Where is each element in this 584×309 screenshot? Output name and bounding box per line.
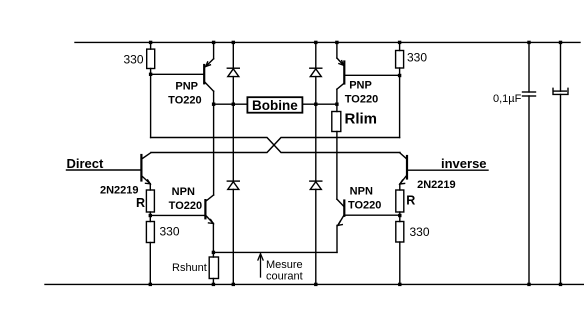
resistor Rlim [332, 112, 341, 132]
junction dot coil line at D1 [232, 103, 235, 106]
capacitor C1 0,1uF wire from top rail [528, 42, 530, 92]
junction dot bottom rail at R4 [149, 283, 152, 286]
diode D4 (lower right) column: coil line to bottom rail [315, 104, 317, 181]
wire: node C to Q5 base [150, 214, 204, 216]
junction dot bottom rail at Rshunt [212, 283, 215, 286]
shunt node junction dot [212, 251, 215, 254]
wire: R4 to bottom rail [149, 243, 151, 285]
wire: Q2 base to node B [345, 74, 399, 76]
wire: R6 to bottom rail [399, 242, 401, 284]
inductor Bobine box [247, 97, 302, 113]
Q3 collector slant [142, 153, 150, 159]
svg-text:R: R [136, 196, 145, 210]
wire: R1 to node A (left PNP base) [150, 69, 152, 75]
svg-text:PNP: PNP [349, 79, 372, 91]
wire: emitter bus to right NPN emitter [213, 251, 337, 253]
Q2 collector slant [337, 83, 344, 89]
junction dot top rail at D1 [232, 41, 235, 44]
node R junction dot (right coil node) [335, 103, 338, 106]
svg-text:Mesure: Mesure [266, 259, 303, 271]
Q4 emitter slant with arrow [400, 176, 406, 184]
wire: top supply rail [75, 41, 580, 43]
junction dot top rail at R1 [149, 41, 152, 44]
Q4 collector slant [400, 153, 406, 159]
junction dot top rail at Q1 emitter [212, 41, 215, 44]
wire: coil node L to Bobine box [214, 103, 247, 105]
wire: Q3 emitter to R3 [149, 184, 151, 190]
transistor Q5 NPN TO220 (bottom left) base bar [204, 200, 206, 218]
wire: bottom supply rail [45, 283, 584, 285]
junction dot top rail at Q2 emitter [335, 41, 338, 44]
Q3 emitter slant with arrow (NPN out) [142, 177, 150, 184]
junction dot top rail at C1 [527, 41, 530, 44]
wire: Direct input to Q3 base [67, 169, 141, 171]
Q1 collector slant [205, 82, 214, 91]
Q6 collector slant [337, 199, 344, 206]
diode D2 triangle [310, 69, 321, 77]
node B junction dot (right PNP base) [398, 74, 401, 77]
wire: Rlim down to Q6 collector [336, 132, 338, 200]
svg-text:TO220: TO220 [168, 95, 201, 107]
wire: shunt node to Rshunt [212, 252, 214, 257]
svg-text:Rlim: Rlim [345, 110, 378, 127]
svg-text:330: 330 [124, 53, 144, 67]
junction dot top rail at D2 [314, 41, 317, 44]
diode D3 cathode bar [227, 180, 239, 182]
wire: Q2 collector down to right coil node [336, 89, 338, 104]
wire: crossover upper-right horizontal [151, 138, 400, 153]
arrow: Mesure courant [260, 254, 262, 277]
wire: R5 to node D [399, 212, 401, 222]
Q2 emitter wire to top rail [336, 42, 338, 58]
svg-text:TO220: TO220 [345, 94, 378, 106]
junction dot bottom rail at D4 [314, 283, 317, 286]
svg-text:NPN: NPN [350, 186, 373, 198]
wire: node A to Q1 base [151, 73, 204, 75]
resistor R4 330 (bottom left) [146, 222, 154, 243]
svg-text:TO220: TO220 [348, 199, 381, 211]
diode D2 (upper right) cathode bar [310, 67, 322, 69]
svg-text:330: 330 [407, 50, 427, 64]
node D junction dot [398, 214, 401, 217]
svg-text:0,1µF: 0,1µF [493, 93, 522, 105]
wire: Q5 emitter down to shunt node [212, 223, 214, 252]
Q2 emitter slant with arrow into base (PNP) [337, 58, 344, 65]
Q5 emitter slant with arrow [206, 216, 213, 223]
wire: R2 to node B [399, 68, 401, 76]
svg-text:NPN: NPN [172, 186, 195, 198]
diode D4 cathode bar [310, 180, 322, 182]
wire: C1 to bottom rail [528, 96, 530, 284]
wire: node A down to crossover upper-left [150, 74, 152, 137]
wire: top rail to R2 [399, 42, 401, 50]
svg-text:PNP: PNP [175, 81, 198, 93]
junction dot top rail at R2 [398, 41, 401, 44]
transistor Q1 PNP TO220 (top left) base bar [203, 65, 205, 83]
diode D4 triangle [310, 182, 321, 190]
wire: inverse input to Q4 base [407, 169, 488, 171]
diode D1 column: top rail to coil line [232, 42, 234, 68]
svg-text:330: 330 [160, 224, 180, 238]
junction dot bottom rail at D3 [232, 283, 235, 286]
svg-text:2N2219: 2N2219 [100, 185, 139, 197]
junction dot bottom rail at C2 [559, 283, 562, 286]
wire: Q4 emitter to R5 [399, 184, 401, 190]
resistor R2 330 (top right) [396, 51, 404, 69]
wire: Q6 base to node D [345, 214, 399, 216]
capacitor C2 flat plate [554, 90, 566, 92]
diode D2 column: top rail to coil line [315, 42, 317, 68]
diode D1 triangle [228, 69, 239, 77]
node C junction dot [149, 214, 152, 217]
capacitor C1 plates [523, 91, 536, 93]
capacitor C2 cup plate [553, 88, 568, 94]
wire: left output column through crossover down to Q5 collector [213, 104, 215, 195]
svg-text:Rshunt: Rshunt [172, 262, 207, 274]
transistor Q4 2N2219 (right driver) base bar [406, 156, 408, 179]
diode D1 (upper left) cathode bar [227, 67, 239, 69]
junction dot bottom rail at C1 [527, 283, 530, 286]
svg-text:inverse: inverse [441, 156, 487, 171]
diode D3 (lower left) column: coil line to bottom rail [232, 104, 234, 181]
svg-text:R: R [406, 193, 415, 207]
Q5 collector slant [206, 195, 213, 201]
transistor Q6 NPN TO220 (bottom right) base bar [343, 201, 345, 216]
wire: top rail to R1 [150, 42, 152, 49]
Q6 emitter slant with arrow [338, 216, 344, 225]
node A junction dot [149, 73, 152, 76]
wire: C2 to bottom rail [560, 95, 562, 285]
svg-text:TO220: TO220 [169, 200, 202, 212]
junction dot coil line at D2 [314, 103, 317, 106]
node L junction dot (left coil node) [212, 103, 215, 106]
wire: coil node R to Rlim [336, 104, 338, 111]
resistor R5 (right R) [396, 190, 404, 212]
junction dot top rail at C2 [559, 41, 562, 44]
svg-text:Bobine: Bobine [252, 98, 298, 113]
resistor R3 (left R) [146, 190, 154, 212]
transistor Q2 PNP TO220 (top right) base bar [343, 62, 345, 84]
svg-text:2N2219: 2N2219 [417, 179, 456, 191]
resistor R1 330 (top left) [147, 49, 155, 68]
wire: Q6 emitter down to emitter bus corner [336, 225, 338, 252]
svg-text:Direct: Direct [67, 156, 105, 171]
capacitor C2 (polarized) wire from top rail [560, 42, 562, 91]
wire: Rshunt to bottom rail [212, 279, 214, 285]
resistor Rshunt [209, 257, 218, 279]
wire: crossover upper-left horizontal [151, 138, 400, 153]
wire: R3 to node C [149, 212, 151, 222]
svg-text:courant: courant [266, 270, 303, 282]
Q1 emitter wire to top rail [213, 42, 215, 58]
resistor R6 330 (bottom right) [396, 222, 404, 243]
Q1 emitter slant with arrow into base (PNP) [206, 59, 214, 67]
junction dot bottom rail at R6 [398, 283, 401, 286]
wire: node B down to crossover upper-right [399, 76, 401, 138]
wire: Q1 collector down to coil node L [213, 91, 215, 104]
transistor Q3 2N2219 (left driver) base bar [140, 155, 142, 181]
svg-text:330: 330 [410, 225, 430, 239]
diode D3 triangle [228, 182, 239, 190]
wire: Bobine box to right coil node [303, 103, 337, 105]
